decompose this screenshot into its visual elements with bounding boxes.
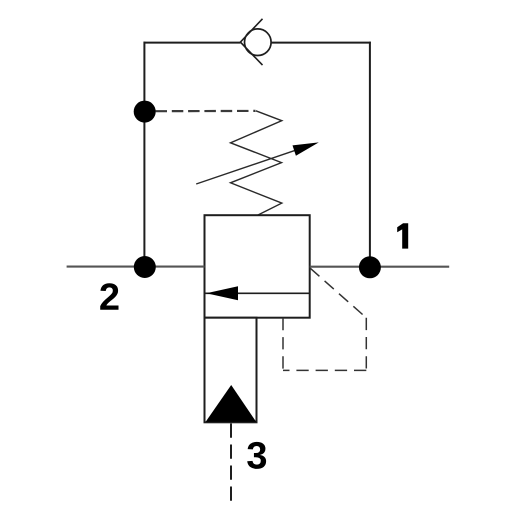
label: port 1 — [397, 223, 408, 248]
valve body U1: main envelope box — [205, 215, 310, 318]
wire: dashed pilot loop diagonal from port 1 side — [310, 268, 366, 318]
wire: left vertical trunk — [143, 42, 145, 267]
wire: dashed pilot loop bottom horizontal — [283, 369, 366, 371]
port 3 flow triangle (solid) — [206, 385, 257, 422]
label: port 2 — [100, 283, 118, 310]
wire: dashed pilot line from left trunk to spring — [156, 110, 256, 112]
valve body: lower stem rectangle — [205, 318, 257, 423]
check valve CV1: ball circle — [244, 29, 271, 56]
check valve CV1: seat V — [240, 19, 262, 65]
node: junction dot on left trunk (pilot tap) — [134, 101, 156, 123]
label: port 3 — [247, 442, 266, 469]
arrow: adjustment arrowhead — [293, 142, 319, 155]
wire: top loop left horizontal segment — [144, 42, 241, 44]
wire: dashed pilot loop left vertical to valve bottom — [282, 318, 284, 371]
wire: dashed drain line to port 3 — [230, 424, 232, 503]
wire: top loop right horizontal segment — [272, 42, 371, 44]
node: junction dot at port 2 — [134, 256, 156, 278]
wire: port 2 line (left) — [67, 266, 205, 268]
flow path arrow inside valve: shaft — [205, 292, 310, 294]
wire: right vertical trunk — [369, 42, 371, 268]
wire: port 1 line (right) — [310, 266, 450, 268]
flow path arrow inside valve: left-pointing solid head — [206, 286, 238, 300]
wire: dashed pilot loop right vertical — [365, 318, 367, 371]
spring: adjustable spring zigzag — [231, 111, 282, 215]
node: junction dot at port 1 — [359, 256, 381, 278]
arrow: adjustment arrow shaft through spring — [196, 145, 310, 184]
